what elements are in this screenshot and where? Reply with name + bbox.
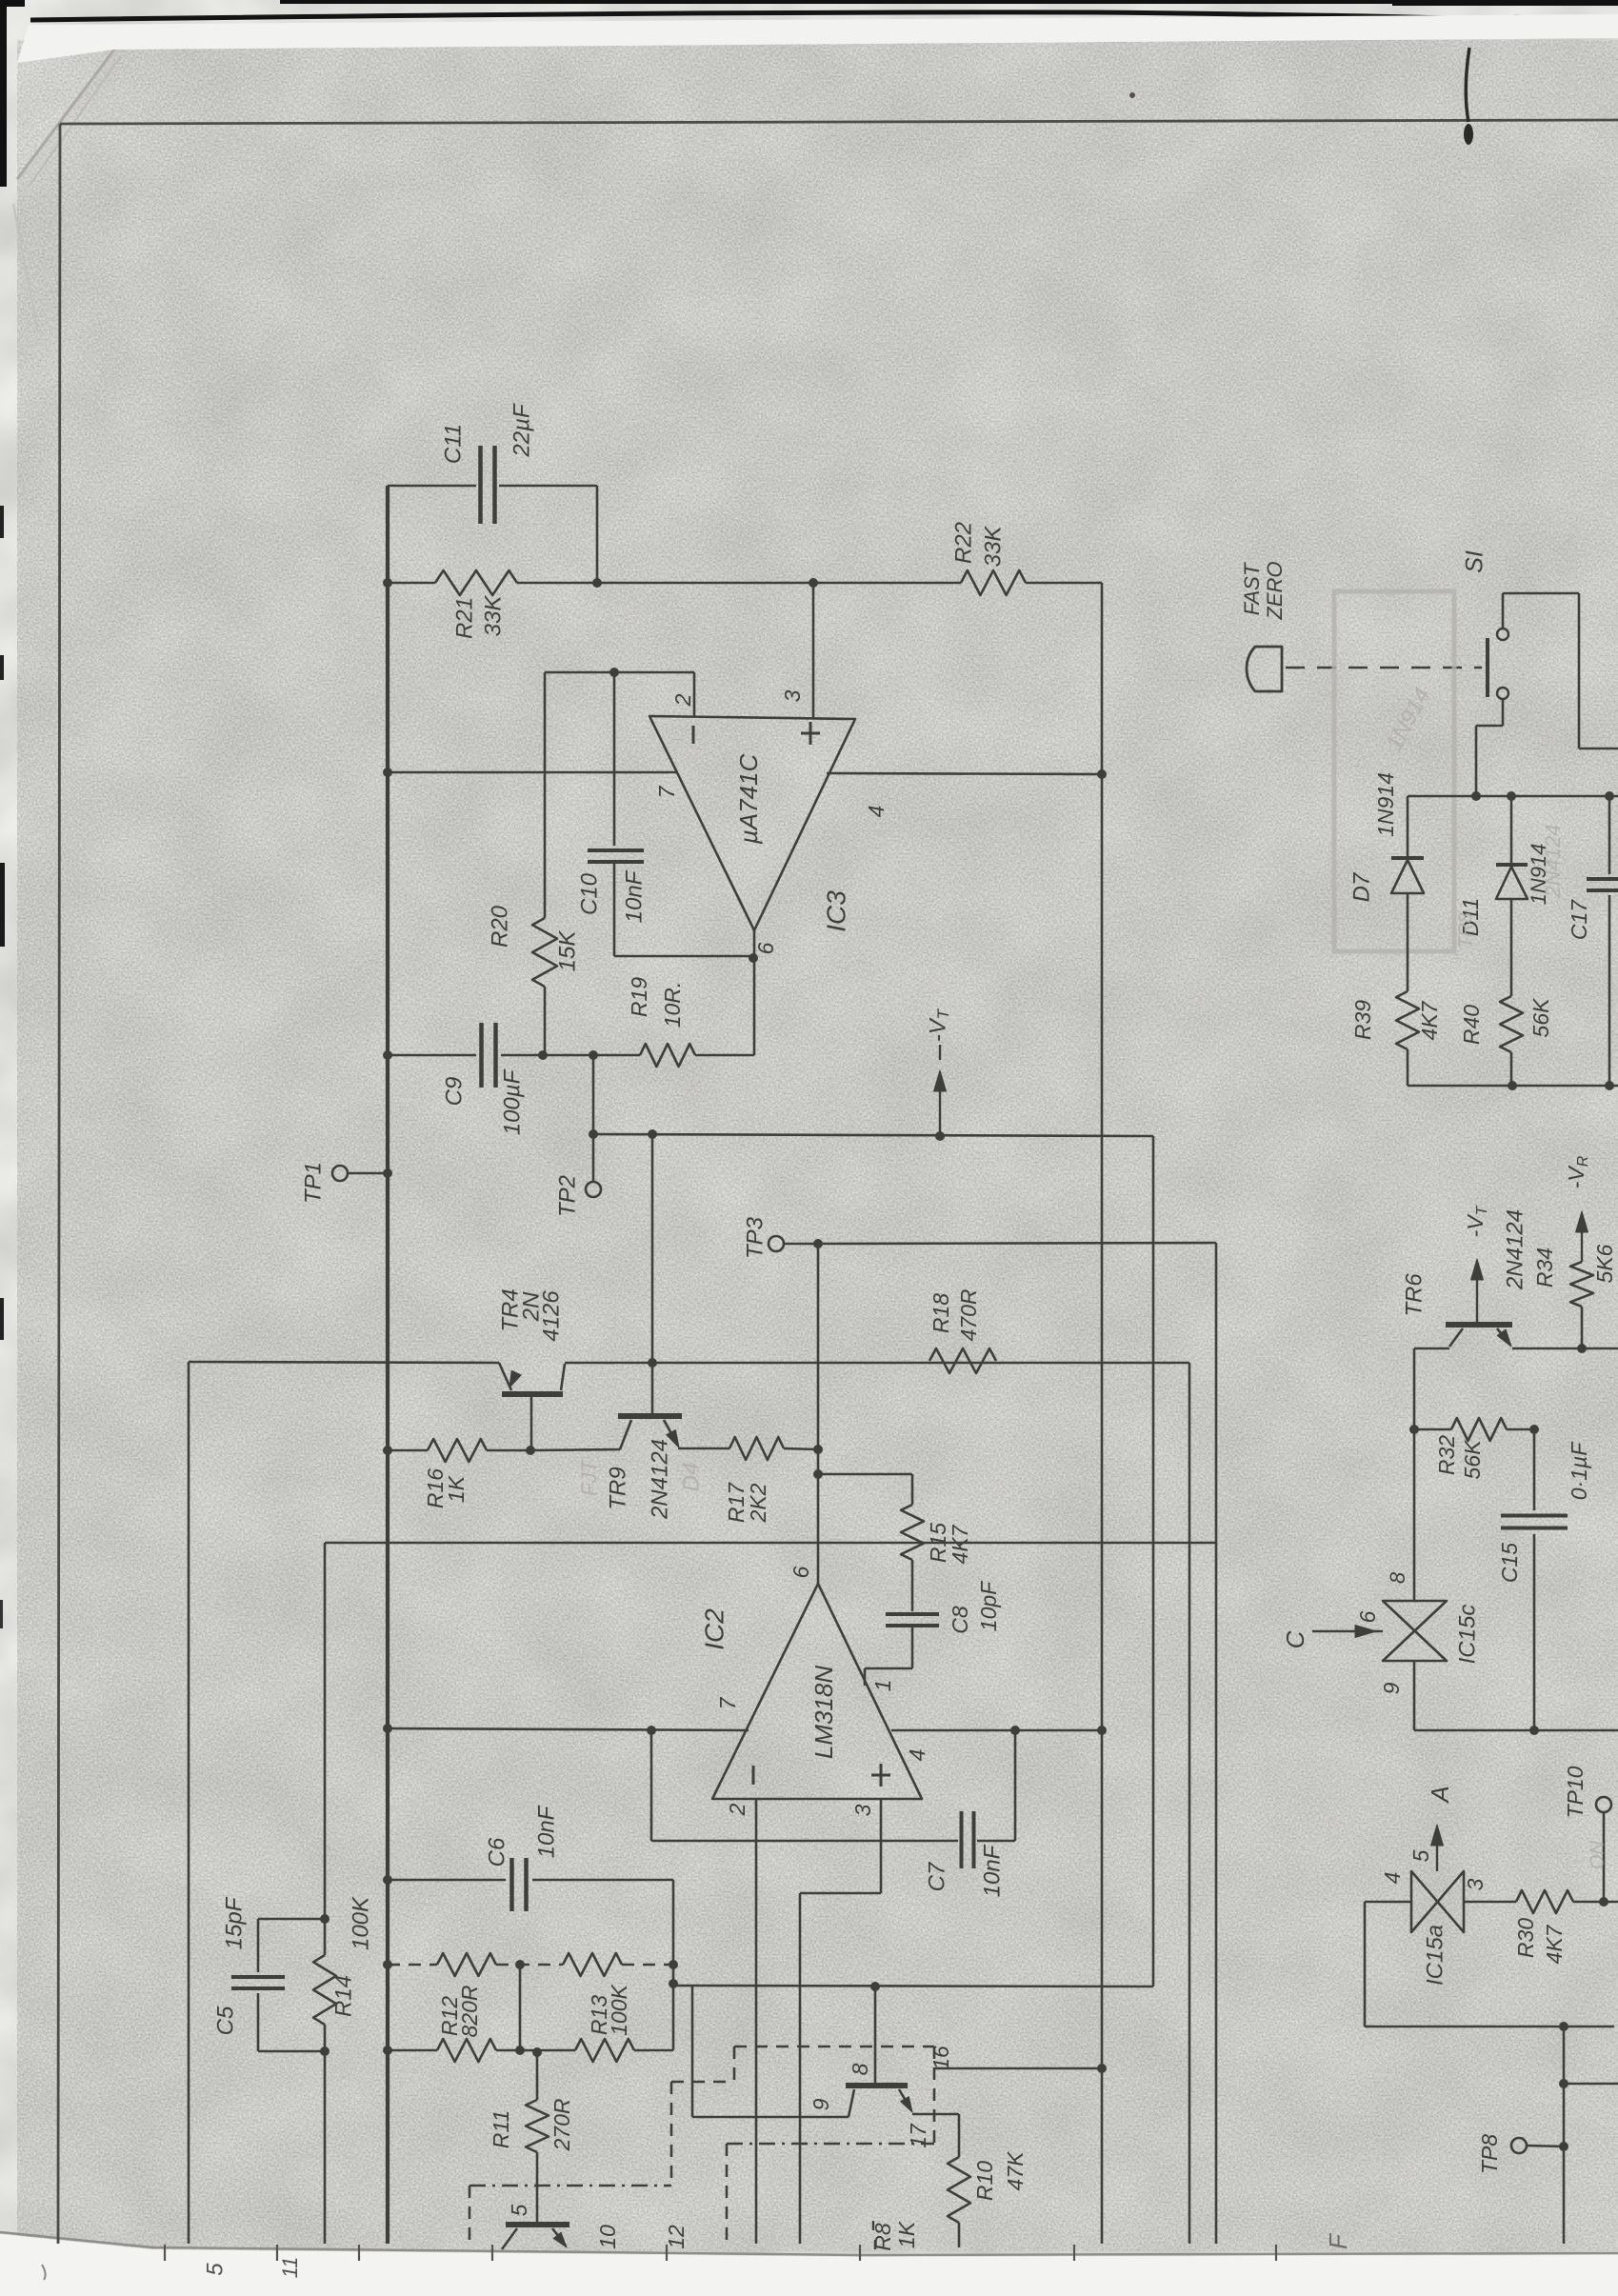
svg-text:LM318N: LM318N [809,1666,838,1759]
svg-text:5: 5 [202,2263,228,2276]
wire C8 to pin1 [865,1667,912,1670]
wire -VT lower row [673,1986,1153,1987]
wire R17 to IC2 node [784,1448,818,1449]
resistor R18 [929,1348,996,1373]
node TR9 base branch [648,1129,657,1139]
svg-text:R18: R18 [929,1293,953,1333]
svg-text:R20: R20 [487,905,512,948]
svg-text:4K7: 4K7 [1417,1000,1442,1040]
svg-text:C5: C5 [212,2006,238,2035]
svg-text:ZERO: ZERO [1263,561,1287,620]
resistor R20 column [544,672,547,918]
transistor TR4 2N4126 [502,1391,563,1397]
op-amp IC3 uA741C [649,716,855,930]
svg-text:3: 3 [780,689,805,702]
svg-text:D4: D4 [678,1463,704,1492]
node right link top [669,1979,678,1988]
svg-text:C8: C8 [948,1606,972,1634]
node TP2 branch [589,1050,598,1060]
wire diode bottom rail [1408,1085,1618,1088]
diode D11 1N914 [1510,796,1513,865]
svg-text:FAST: FAST [1240,562,1264,615]
wire pin17 to R10 [912,2113,959,2116]
wire -VT row [593,1134,1153,1136]
node -VT arrow [935,1131,945,1141]
svg-text:6: 6 [1355,1610,1380,1623]
svg-text:C9: C9 [441,1077,467,1107]
resistor R16 [428,1439,487,1462]
wire TR6 emitter row [1512,1348,1618,1350]
wire IC15c pin8 column [1413,1429,1416,1601]
bottom paper edge [0,2232,1618,2255]
svg-text:1K: 1K [894,2220,919,2248]
svg-text:6: 6 [753,942,778,954]
svg-text:100K: 100K [348,1896,373,1950]
node R17 junction [813,1445,823,1454]
svg-text:2N4124: 2N4124 [1541,824,1565,898]
test point TP2 [586,1182,601,1197]
svg-text:C6: C6 [484,1837,509,1867]
plus sign IC3 [809,722,812,745]
dashed resistor row R12a R13a [388,1964,437,1967]
svg-text:ON: ON [1587,1840,1608,1869]
svg-text:R11: R11 [489,2110,513,2149]
capacitor C7 [960,1811,964,1868]
svg-text:D7: D7 [1348,871,1374,902]
node C11-R21 left [383,578,392,588]
wire TR9 emitter to R17 [678,1447,729,1450]
node pin6 [749,953,758,963]
resistor R30 [1516,1890,1573,1913]
bottom margin tick marks [164,2245,166,2261]
svg-text:TP1: TP1 [300,1162,326,1204]
wire C11 top [388,485,476,488]
node C17 top [1605,791,1614,801]
wire IC2 pin2 drop [755,1799,758,2244]
svg-text:2: 2 [670,693,695,707]
wire TR6 collector corner [1414,1348,1449,1350]
switch S1 moving bar [1486,638,1489,697]
svg-text:56K: 56K [1528,997,1553,1038]
wire R19 to output [695,1054,754,1057]
svg-text:2K2: 2K2 [746,1483,770,1523]
svg-text:TR6: TR6 [1401,1273,1427,1317]
switch contact bottom [1497,688,1508,699]
svg-text:R19: R19 [627,977,651,1017]
wire C9 row left [388,1054,476,1057]
node C6 bus [383,1875,392,1885]
node dashed row centre [515,1960,525,1969]
node IC3 pin3 branch [809,578,818,588]
wire C10 bottom to pin6 [614,955,752,958]
analog gate IC15a [1411,1871,1464,1932]
wire C6 row [388,1879,506,1882]
wire collector row corner down [1189,1363,1191,2244]
wire IC3 pin4 [827,773,1102,774]
svg-text:R21: R21 [451,597,477,639]
svg-text:10nF: 10nF [533,1805,559,1858]
resistor R32 row [1409,1425,1419,1434]
wire pin12 column [691,1987,694,2117]
test point TP3 [769,1236,784,1251]
wire pin9 row [692,2116,849,2119]
wire pin3 net down-right [650,1730,653,1841]
wire IC15c pin9 down [1413,1661,1416,1730]
black left-edge specks [0,506,4,538]
node row to edge [1559,2079,1568,2088]
resistor R15 branch [818,1473,912,1476]
transistor TR9 2N4124 [651,1134,654,1416]
svg-text:TP10: TP10 [1563,1766,1588,1818]
svg-text:7: 7 [654,785,679,798]
resistor R11 column [536,2052,539,2100]
transistor TR6 2N4124 [1446,1322,1512,1328]
svg-text:F: F [1324,2232,1352,2249]
minus sign IC3 [692,726,695,744]
node pin4 loop [1559,2022,1568,2031]
wire R21 row [388,582,435,585]
wire -VT row corner down [1152,1136,1155,1987]
svg-text:1N914: 1N914 [1373,772,1398,837]
svg-text:1: 1 [870,1680,895,1692]
wire long mid row [325,1542,1216,1545]
node C17 bottom [1605,1081,1614,1090]
black scan edge top line [30,12,1562,22]
analog gate IC15c [1383,1601,1447,1661]
node R16 bus [383,1446,392,1455]
switch contact top [1497,629,1508,640]
svg-text:5: 5 [1408,1849,1433,1862]
wire IC2 pin3 drop [880,1799,883,1893]
svg-text:R10: R10 [972,2161,997,2201]
node C11-R21 right [592,578,602,588]
svg-text:10nF: 10nF [979,1844,1005,1897]
svg-text:TP3: TP3 [742,1216,768,1259]
svg-text:2N4124: 2N4124 [1502,1209,1528,1290]
svg-text:10R.: 10R. [660,982,685,1028]
transistor IC1 pin8 [846,2083,908,2088]
wire pin9 row to page edge [1414,1729,1618,1732]
resistor R10 [948,2157,970,2223]
test point TP10 [1596,1797,1611,1812]
svg-text:8: 8 [848,2063,872,2075]
dashed actuator link [1286,667,1482,669]
svg-text:R34: R34 [1532,1248,1557,1288]
svg-text:0·1µF: 0·1µF [1567,1441,1591,1500]
node C9 bus [383,1050,392,1060]
svg-text:3: 3 [850,1804,875,1816]
svg-text:16: 16 [929,2046,953,2070]
node TP3 [813,1239,823,1248]
svg-text:C7: C7 [924,1861,949,1891]
node TR4 base [526,1446,535,1455]
svg-text:4K7: 4K7 [1542,1924,1567,1964]
node D11 top [1507,791,1516,801]
svg-text:5: 5 [507,2204,531,2216]
node pin16 -V rail [1097,2064,1107,2073]
svg-text:9: 9 [809,2098,833,2110]
svg-text:R22: R22 [950,522,976,564]
svg-text:7: 7 [715,1696,740,1709]
wire base node to TR9 [530,1449,620,1450]
svg-text:R39: R39 [1350,1000,1375,1040]
svg-text:C: C [1281,1630,1309,1648]
node pin4 -V rail [1097,1726,1107,1735]
svg-text:33K: 33K [980,526,1006,568]
resistor R17 [729,1437,784,1460]
svg-text:R14: R14 [330,1975,356,2017]
svg-text:100µF: 100µF [499,1068,525,1135]
node dashed row bus [383,1960,392,1969]
svg-text:IC2: IC2 [699,1608,729,1650]
IC1 dashed outline [469,2185,671,2187]
svg-text:10pF: 10pF [976,1580,1001,1631]
node C15 top [1529,1425,1539,1434]
wire C6 right corner down [672,1880,675,2050]
transistor IC1 pin5 base bar [506,2222,569,2227]
node R15 junction [813,1469,823,1479]
svg-text:C15: C15 [1497,1543,1522,1583]
svg-text:TR9: TR9 [605,1467,630,1509]
node TP2 row [589,1129,598,1139]
svg-text:56K: 56K [1460,1439,1485,1480]
resistor R19 [640,1044,695,1067]
node pin8 base [870,1982,880,1991]
capacitor C11 [478,446,483,524]
svg-text:4126: 4126 [538,1290,564,1342]
svg-text:4: 4 [1380,1872,1405,1885]
minus sign IC2 [752,1766,755,1785]
svg-text:C17: C17 [1567,899,1591,940]
svg-text:C10: C10 [576,872,602,915]
pencil box around diodes [1334,591,1454,951]
wire pin3 drop [812,583,815,718]
node C15 bottom [1529,1726,1539,1735]
svg-text:100K: 100K [607,1983,631,2035]
capacitor C17 [1608,796,1611,874]
svg-text:TR8: TR8 [1455,912,1476,948]
svg-text:15pF: 15pF [221,1896,247,1949]
capacitor C15 [1533,1429,1536,1510]
wire right column [1563,2026,1566,2244]
wire IC15a pin4 loop [1365,1901,1411,1904]
svg-text:C11: C11 [440,424,466,464]
plus sign IC2 [880,1764,883,1787]
wire TP3 row [818,1243,1216,1244]
ink pen mark top right [1466,48,1469,122]
wire C11 left drop / main bus [386,486,390,2244]
svg-text:6: 6 [789,1566,813,1578]
diode D7 1N914 [1407,796,1409,858]
node pin7 bus [383,768,392,777]
svg-text:1K: 1K [444,1474,469,1503]
node R11 branch [532,2047,542,2057]
wire IC3 output [753,930,756,1055]
node R40 bottom [1508,1081,1517,1090]
wire TR4 emitter row [189,1362,499,1363]
svg-text:A: A [1426,1786,1454,1804]
solid resistor row R12 R13 [388,2049,437,2052]
svg-text:4: 4 [864,806,889,818]
wire R16 row [388,1449,428,1452]
node switch branch [1471,791,1481,801]
node R20 bottom [538,1050,548,1060]
svg-text:2: 2 [725,1803,749,1816]
wire centre link [519,1965,522,2050]
resistor R40 [1500,996,1523,1052]
wire mid row corner down to R14 [324,1543,327,1919]
svg-text:TP2: TP2 [554,1175,580,1217]
wire IC2 output column [817,1244,820,1584]
svg-text:IC3: IC3 [821,890,850,932]
resistor R14 column [320,1914,330,1924]
resistor R22 [961,570,1026,595]
svg-text:47K: 47K [1003,2150,1028,2191]
svg-text:11: 11 [278,2257,302,2279]
paper corner cut crease [17,50,114,179]
svg-text:8: 8 [1386,1571,1409,1584]
wire switch bottom to node [1502,699,1505,726]
wire R22 to -V rail corner [1026,582,1102,585]
wire switch top loop [1502,593,1505,629]
op-amp IC2 LM318N [712,1584,922,1799]
capacitor C8 [886,1612,939,1616]
wire -V rail vertical [1101,583,1104,2244]
svg-text:5K6: 5K6 [1592,1244,1617,1283]
wire C7 right to pin4 row [977,1840,1015,1843]
capacitor C10 column [613,672,616,846]
node centre solid [515,2046,525,2055]
svg-text:R40: R40 [1459,1005,1484,1045]
wire IC2 pin4 row [891,1729,1102,1732]
node pin4 to -V rail [1097,769,1107,779]
svg-text:22µF: 22µF [509,403,534,458]
node C10 top [609,668,619,677]
node pin7 bus [383,1724,392,1733]
wire IC3 pin2 top rail [545,671,694,674]
svg-text:10: 10 [595,2225,620,2249]
wire C9 to R19 [501,1054,640,1057]
wire pin16 row [934,2067,1102,2070]
resistor R34 [1581,1307,1584,1348]
svg-text:2N4124: 2N4124 [647,1439,672,1520]
svg-text:10nF: 10nF [621,869,647,923]
svg-text:TP8: TP8 [1477,2134,1502,2174]
svg-text:9: 9 [1379,1682,1404,1694]
svg-text:4: 4 [905,1749,929,1762]
svg-text:R32: R32 [1434,1435,1459,1475]
wire IC2 pin7 row [388,1728,749,1730]
node R34 bottom [1577,1344,1587,1353]
svg-text:IC15c: IC15c [1454,1605,1480,1665]
svg-text:3: 3 [1463,1878,1488,1890]
test point TP8 [1511,2138,1527,2153]
frame left border [58,124,60,2244]
margin squiggle [42,2265,46,2280]
svg-text:12: 12 [664,2225,689,2249]
svg-text:µA741C: µA741C [734,754,763,846]
node TR9 base tee [648,1358,657,1368]
capacitor C5 bracket [258,1918,325,1921]
node pin3 branch on pin7 row [647,1726,656,1735]
wire IC3 pin7 [388,771,678,774]
svg-text:820R: 820R [457,1986,482,2038]
wire TP2 stub [592,1055,595,1181]
wire TP3 row corner down [1215,1243,1218,2244]
svg-text:IC15a: IC15a [1422,1925,1448,1986]
test point TP1 [332,1166,348,1181]
wire C11 right drop [596,486,599,583]
node solid row bus [383,2046,392,2055]
svg-text:33K: 33K [480,595,506,637]
-VT arrow [939,1078,941,1136]
capacitor C9 [479,1023,484,1088]
node dashed row right [669,1960,678,1969]
wire diode top rail [1408,795,1618,798]
fast zero contact symbol [1247,647,1282,691]
capacitor C6 [509,1858,514,1911]
white strip below top edge [17,14,1618,63]
output A arrow [1436,1832,1438,1871]
svg-text:SI: SI [1462,550,1488,573]
wire IC15a pin3 to R30 [1464,1901,1516,1904]
svg-text:4K7: 4K7 [948,1524,972,1564]
svg-text:FJT: FJT [577,1459,601,1496]
wire left drop from emitter row [188,1362,190,2244]
svg-text:270R: 270R [549,2099,574,2152]
resistor R21 [435,570,517,595]
wire pin2 drop [693,672,696,717]
svg-text:R30: R30 [1513,1918,1538,1958]
frame top border [60,120,1618,124]
wire TR4 collector row [565,1362,1189,1365]
resistor R39 [1396,991,1419,1049]
svg-text:470R: 470R [956,1289,981,1342]
black scan left bar [0,0,7,187]
svg-text:15K: 15K [554,930,580,972]
node C7 on pin4 row [1010,1726,1020,1735]
